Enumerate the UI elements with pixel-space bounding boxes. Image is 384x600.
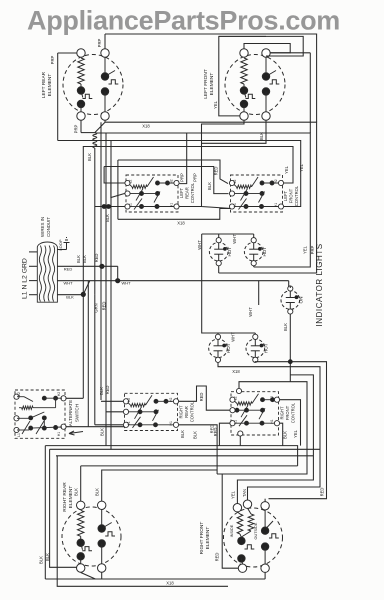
svg-text:GRN: GRN bbox=[94, 303, 99, 312]
svg-text:RED: RED bbox=[213, 428, 218, 437]
svg-text:X18: X18 bbox=[142, 124, 150, 129]
svg-text:BLK: BLK bbox=[180, 430, 185, 438]
wire LFC L2 feed RED bbox=[118, 160, 228, 184]
svg-text:H2: H2 bbox=[57, 392, 61, 396]
svg-text:TAN: TAN bbox=[242, 489, 247, 497]
vertical x95 down bbox=[94, 294, 96, 390]
wire RFC H1 right bbox=[280, 423, 283, 445]
wire LRC L1 row bbox=[95, 206, 125, 208]
svg-text:WHT: WHT bbox=[121, 281, 131, 286]
svg-text:H1: H1 bbox=[274, 203, 278, 207]
svg-text:LOOP: LOOP bbox=[58, 239, 63, 250]
right rear element bbox=[62, 501, 121, 572]
terminal tick N bbox=[29, 280, 37, 282]
wire y465 to RRE TL bbox=[81, 465, 298, 467]
wire LRC P stub bbox=[111, 167, 125, 198]
svg-text:RED: RED bbox=[64, 266, 73, 271]
junction lamp bottom bbox=[288, 359, 293, 364]
wire lamp1 riser bbox=[218, 234, 220, 238]
hot lamp 1 bbox=[209, 238, 232, 266]
left drop x45 bbox=[44, 446, 46, 579]
svg-text:CONTROL: CONTROL bbox=[291, 402, 296, 423]
svg-text:RED: RED bbox=[215, 553, 220, 562]
svg-text:PRP: PRP bbox=[50, 55, 55, 64]
bottom band y455 bbox=[56, 455, 313, 457]
svg-text:L2: L2 bbox=[17, 392, 21, 396]
svg-text:RED: RED bbox=[105, 386, 110, 395]
svg-text:OUTSIDE: OUTSIDE bbox=[254, 522, 258, 539]
svg-text:RIGHT FRONT: RIGHT FRONT bbox=[199, 522, 205, 555]
wire YEL mid elbow bbox=[237, 375, 313, 504]
wire LFE BR down BLK bbox=[202, 120, 267, 143]
hot lamp 4 bbox=[246, 334, 269, 362]
svg-text:REAR: REAR bbox=[184, 406, 189, 418]
long WHT line y281 bbox=[57, 280, 288, 282]
svg-text:RED: RED bbox=[102, 302, 107, 311]
wire RRE TR riser bbox=[102, 470, 217, 501]
svg-text:BLK: BLK bbox=[45, 553, 50, 561]
ground loop wire bbox=[57, 249, 66, 251]
left drop x57 bbox=[57, 456, 228, 587]
svg-text:L1: L1 bbox=[17, 433, 21, 437]
wire lamp34 top bus bbox=[202, 234, 256, 333]
svg-text:BLK: BLK bbox=[74, 488, 79, 496]
svg-text:YEL: YEL bbox=[303, 245, 308, 254]
wire RRC L2 stub bbox=[101, 400, 123, 402]
wire LRC L2 stub bbox=[104, 167, 124, 184]
svg-text:BLK: BLK bbox=[39, 556, 44, 564]
svg-text:FRONT: FRONT bbox=[285, 405, 290, 420]
svg-text:CONTROL: CONTROL bbox=[190, 182, 195, 203]
hot lamp 3 bbox=[209, 334, 232, 362]
svg-text:X18: X18 bbox=[177, 221, 185, 226]
svg-text:RED: RED bbox=[94, 254, 99, 263]
vertical x117 seg bbox=[117, 266, 119, 280]
svg-text:REAR: REAR bbox=[185, 187, 190, 199]
svg-text:BLK: BLK bbox=[105, 214, 110, 222]
right front element bbox=[224, 500, 283, 572]
wire LRC H2 tap x186 bbox=[180, 133, 187, 184]
svg-text:ELEMENT: ELEMENT bbox=[47, 74, 53, 97]
svg-text:H1: H1 bbox=[170, 203, 174, 207]
wire ALT H2 right bbox=[66, 397, 84, 399]
svg-text:H1: H1 bbox=[169, 421, 173, 425]
wire lamp4 bottom RED bbox=[255, 362, 326, 499]
svg-text:YEL: YEL bbox=[231, 490, 236, 499]
wire band y133 YEL bbox=[95, 133, 310, 267]
right rear control box bbox=[123, 393, 178, 430]
svg-text:L2: L2 bbox=[233, 180, 237, 184]
svg-text:WHT: WHT bbox=[231, 332, 236, 342]
wire lamp2 riser bbox=[253, 234, 255, 238]
wire lamp4 riser bbox=[254, 333, 256, 334]
svg-text:X18: X18 bbox=[166, 581, 174, 586]
junction dot RED x102 bbox=[99, 264, 104, 269]
svg-text:LEFT: LEFT bbox=[283, 190, 288, 201]
svg-text:CONDUIT: CONDUIT bbox=[46, 217, 51, 237]
vertical bus x101 bbox=[100, 122, 102, 400]
svg-text:PRP: PRP bbox=[192, 173, 197, 182]
left rear control box bbox=[125, 175, 179, 212]
wire BLK down x94.8 bbox=[94, 148, 96, 294]
terminal tick L1 bbox=[29, 294, 37, 296]
terminal tick L2 bbox=[29, 265, 37, 267]
svg-text:YEL: YEL bbox=[284, 165, 289, 174]
svg-text:H1: H1 bbox=[270, 419, 274, 423]
svg-text:HOT: HOT bbox=[227, 247, 232, 257]
wire LFE outer right down bbox=[266, 36, 303, 56]
svg-text:BLK: BLK bbox=[76, 255, 81, 263]
svg-text:WHT: WHT bbox=[232, 234, 237, 244]
junction dot LRC L1 b bbox=[106, 204, 111, 209]
wire band y146.5 right bbox=[95, 147, 293, 182]
left front element bbox=[225, 49, 285, 120]
conduit bbox=[37, 242, 57, 302]
wire LFE BL down PRP bbox=[202, 120, 245, 208]
wire LFE outer left bbox=[219, 36, 266, 116]
svg-text:BLK: BLK bbox=[207, 182, 212, 190]
svg-text:BLK: BLK bbox=[283, 431, 288, 439]
wire RRE BR down bbox=[101, 572, 103, 579]
wire LFE TL up bbox=[244, 44, 290, 53]
wire RRE BL diagonal bbox=[81, 573, 96, 580]
bottom long wire bbox=[45, 578, 265, 580]
wire WHT x258 down bbox=[258, 281, 260, 305]
wire on lamp riser bbox=[289, 281, 291, 288]
wire RFC lower left feed bbox=[219, 423, 229, 445]
wire RFE TR riser bbox=[264, 499, 266, 502]
wire PRP left rear BL bbox=[80, 120, 82, 132]
svg-text:BLK: BLK bbox=[100, 428, 105, 436]
left rear element bbox=[63, 49, 123, 120]
wire band y140 YEL bbox=[58, 141, 301, 205]
svg-text:L2: L2 bbox=[127, 398, 131, 402]
alternate switch box bbox=[14, 390, 66, 438]
svg-text:BLK: BLK bbox=[87, 153, 92, 161]
wire lamp3 bottom TAN bbox=[218, 362, 320, 500]
svg-text:INDICATOR LIGHTS: INDICATOR LIGHTS bbox=[315, 243, 324, 326]
svg-text:RED: RED bbox=[199, 393, 204, 402]
svg-text:PRP: PRP bbox=[179, 173, 184, 182]
svg-text:YEL: YEL bbox=[213, 100, 218, 109]
svg-text:RIGHT: RIGHT bbox=[179, 405, 184, 418]
svg-text:LEFT REAR: LEFT REAR bbox=[41, 71, 47, 98]
wire BLK exit bbox=[57, 294, 83, 296]
svg-text:H2: H2 bbox=[169, 398, 173, 402]
wire RRC P stub bbox=[106, 411, 123, 413]
wire RRE TL riser bbox=[80, 466, 82, 501]
svg-text:RIGHT: RIGHT bbox=[280, 406, 285, 419]
svg-text:BLK: BLK bbox=[259, 132, 264, 140]
vertical bus x106 bbox=[105, 133, 107, 446]
svg-text:BLK: BLK bbox=[82, 255, 87, 263]
wire BR diagonal to wavy bbox=[95, 122, 105, 132]
wire left side down bbox=[57, 53, 59, 141]
left drop x49 bbox=[50, 449, 77, 567]
wire top y36 from x218 bbox=[219, 35, 266, 37]
svg-text:L1: L1 bbox=[233, 203, 237, 207]
svg-text:PRP: PRP bbox=[74, 124, 79, 133]
wire LFC P feed BLK bbox=[104, 167, 228, 194]
wire right bus x309 bbox=[309, 53, 311, 133]
wire lamp2 bottom bbox=[253, 266, 255, 267]
wire LRC H1 link bbox=[180, 206, 202, 208]
svg-text:L2: L2 bbox=[234, 396, 238, 400]
wire LFC H1 right bbox=[284, 204, 301, 207]
wire RRC H1 right bbox=[179, 425, 217, 474]
vertical bus x116 bbox=[117, 160, 119, 219]
svg-text:WHT: WHT bbox=[63, 281, 73, 286]
diagonal BLK to x89 bbox=[83, 281, 90, 295]
vertical bus x111 bbox=[110, 141, 112, 450]
wire PRP left rear TR up bbox=[104, 34, 106, 49]
wire lamp top bus bbox=[202, 233, 254, 235]
svg-text:L1: L1 bbox=[127, 421, 131, 425]
wire band y122 PRP bbox=[105, 122, 317, 273]
junction dot RFC P bbox=[235, 408, 240, 413]
svg-text:RIGHT REAR: RIGHT REAR bbox=[62, 482, 68, 512]
wire PRP left rear TL bbox=[58, 52, 77, 54]
svg-text:CONTROL: CONTROL bbox=[294, 185, 299, 206]
junction dot WHT x117 bbox=[115, 278, 120, 283]
svg-text:HOT: HOT bbox=[264, 343, 269, 353]
svg-text:LEFT FRONT: LEFT FRONT bbox=[203, 69, 209, 99]
svg-text:WIRES IN: WIRES IN bbox=[40, 217, 45, 237]
wire RFE BL left bbox=[217, 474, 238, 568]
svg-text:ELEMENT: ELEMENT bbox=[205, 527, 211, 550]
wire band y146.5 bbox=[83, 147, 95, 399]
svg-text:ON: ON bbox=[299, 297, 304, 304]
wire RFE BR down bbox=[264, 572, 266, 579]
svg-text:L1 N L2 GRD: L1 N L2 GRD bbox=[22, 258, 29, 299]
svg-text:X18: X18 bbox=[232, 369, 240, 374]
svg-text:BLK: BLK bbox=[283, 323, 288, 331]
svg-text:HOT: HOT bbox=[262, 247, 267, 257]
svg-text:BLK: BLK bbox=[193, 431, 198, 439]
svg-text:SWITCH: SWITCH bbox=[75, 404, 80, 422]
junction dot LRC L1 a bbox=[102, 204, 107, 209]
svg-text:AppliancePartsPros.com: AppliancePartsPros.com bbox=[27, 6, 340, 36]
bottom band y445 bbox=[45, 446, 297, 466]
wavy conduit wire bbox=[93, 133, 97, 148]
svg-text:YEL: YEL bbox=[299, 163, 304, 172]
wire left rear BR down bbox=[104, 120, 106, 122]
svg-text:BLK: BLK bbox=[66, 295, 74, 300]
svg-text:L2: L2 bbox=[129, 180, 133, 184]
svg-text:RED: RED bbox=[319, 488, 324, 497]
wire RFC H2 right bbox=[280, 400, 301, 446]
wire RRC L1 stub bbox=[94, 390, 96, 425]
wire top bus y34 bbox=[105, 34, 317, 122]
svg-text:H2: H2 bbox=[270, 396, 274, 400]
wire lamp1 bottom bbox=[218, 266, 220, 273]
terminal tick GRD bbox=[29, 251, 37, 253]
wire BL to wavy bbox=[81, 132, 95, 134]
svg-text:YEL: YEL bbox=[293, 429, 298, 438]
svg-text:LEFT: LEFT bbox=[179, 187, 184, 198]
wire RED exit bbox=[57, 265, 117, 267]
on lamp bbox=[281, 286, 304, 314]
svg-text:CONTROL: CONTROL bbox=[190, 401, 195, 422]
wire on lamp down BLK bbox=[289, 314, 291, 382]
wire lamp3 riser bbox=[217, 333, 219, 334]
svg-text:PRP: PRP bbox=[97, 38, 102, 47]
svg-text:INSIDE: INSIDE bbox=[230, 524, 234, 537]
svg-text:BLK: BLK bbox=[95, 488, 100, 496]
svg-text:L1: L1 bbox=[129, 203, 133, 207]
RFC bottom terminal bbox=[238, 431, 243, 436]
wire LFE TR right bbox=[270, 52, 310, 54]
svg-text:FRONT: FRONT bbox=[289, 188, 294, 203]
junction BLK bbox=[81, 292, 86, 297]
left front control box bbox=[229, 175, 283, 212]
right front control box bbox=[230, 392, 280, 435]
svg-text:WHT: WHT bbox=[248, 307, 253, 317]
wire LRC bottom band X18 bbox=[118, 209, 232, 220]
svg-text:H1: H1 bbox=[57, 432, 61, 436]
svg-text:HOT: HOT bbox=[226, 343, 231, 353]
wire RRC H2 right bbox=[179, 386, 230, 410]
svg-text:H2: H2 bbox=[274, 179, 278, 183]
svg-text:H2: H2 bbox=[170, 179, 174, 183]
wire LFC H2 right bbox=[284, 181, 293, 183]
hot lamp 2 bbox=[244, 238, 267, 266]
bottom band y449 bbox=[50, 448, 320, 450]
svg-text:L1: L1 bbox=[234, 420, 238, 424]
wire RFC top terminal bbox=[217, 382, 307, 474]
alternate switch arrow bbox=[69, 431, 83, 435]
wire ALT H1 right bbox=[66, 426, 125, 428]
svg-text:BLK: BLK bbox=[99, 387, 104, 395]
svg-text:ALTERNATE: ALTERNATE bbox=[68, 400, 73, 426]
svg-text:ELEMENT: ELEMENT bbox=[209, 73, 215, 96]
